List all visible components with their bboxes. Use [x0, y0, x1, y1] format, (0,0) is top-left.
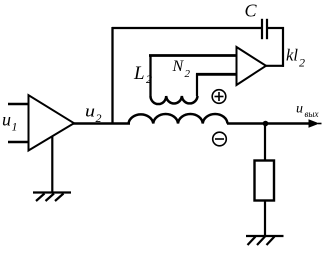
- wire N2 winding left vertical: [149, 55, 151, 97]
- wire junction to resistor: [264, 124, 266, 162]
- inductor N2 (secondary winding, 3 humps): [151, 96, 198, 104]
- wire N2 winding right vertical: [196, 74, 198, 97]
- wire U1 ground stem: [51, 136, 53, 193]
- node polarity plus mark: [212, 90, 226, 104]
- ground right: [246, 236, 284, 245]
- wire N2 to U2 lower input: [196, 73, 237, 76]
- wire feedback left vertical: [111, 27, 113, 124]
- node u_out arrow: [309, 119, 320, 127]
- svg-text:L: L: [133, 63, 145, 84]
- svg-text:2: 2: [185, 68, 191, 80]
- svg-text:N: N: [172, 58, 185, 75]
- wire after inductor to arrow: [227, 122, 312, 125]
- op-amp U1: [29, 95, 75, 150]
- wire U1 input upper: [8, 103, 29, 106]
- svg-text:1: 1: [12, 120, 18, 134]
- node output junction dot: [263, 121, 269, 127]
- wire resistor to ground: [264, 200, 266, 236]
- svg-text:вых: вых: [305, 109, 319, 119]
- capacitor C: [262, 19, 267, 39]
- ground left: [33, 193, 71, 202]
- svg-text:u: u: [85, 102, 95, 121]
- inductor L2 (primary winding, 4 humps): [129, 114, 228, 124]
- wire feedback top to capacitor: [112, 27, 261, 29]
- svg-text:u: u: [2, 110, 11, 130]
- svg-text:2: 2: [299, 56, 305, 70]
- wire capacitor to corner: [268, 27, 284, 29]
- svg-text:u: u: [296, 102, 303, 117]
- wire main output line: [73, 122, 130, 125]
- wire N2 winding top (U2 upper input): [149, 54, 237, 57]
- wire right vertical down to U2 output: [282, 27, 284, 67]
- wire U1 input lower: [8, 141, 29, 144]
- node polarity minus mark: [213, 132, 227, 146]
- resistor R load: [255, 161, 275, 201]
- wire U2 output: [265, 65, 284, 67]
- svg-text:kl: kl: [286, 46, 298, 65]
- svg-text:C: C: [245, 1, 258, 21]
- op-amp U2: [237, 47, 267, 85]
